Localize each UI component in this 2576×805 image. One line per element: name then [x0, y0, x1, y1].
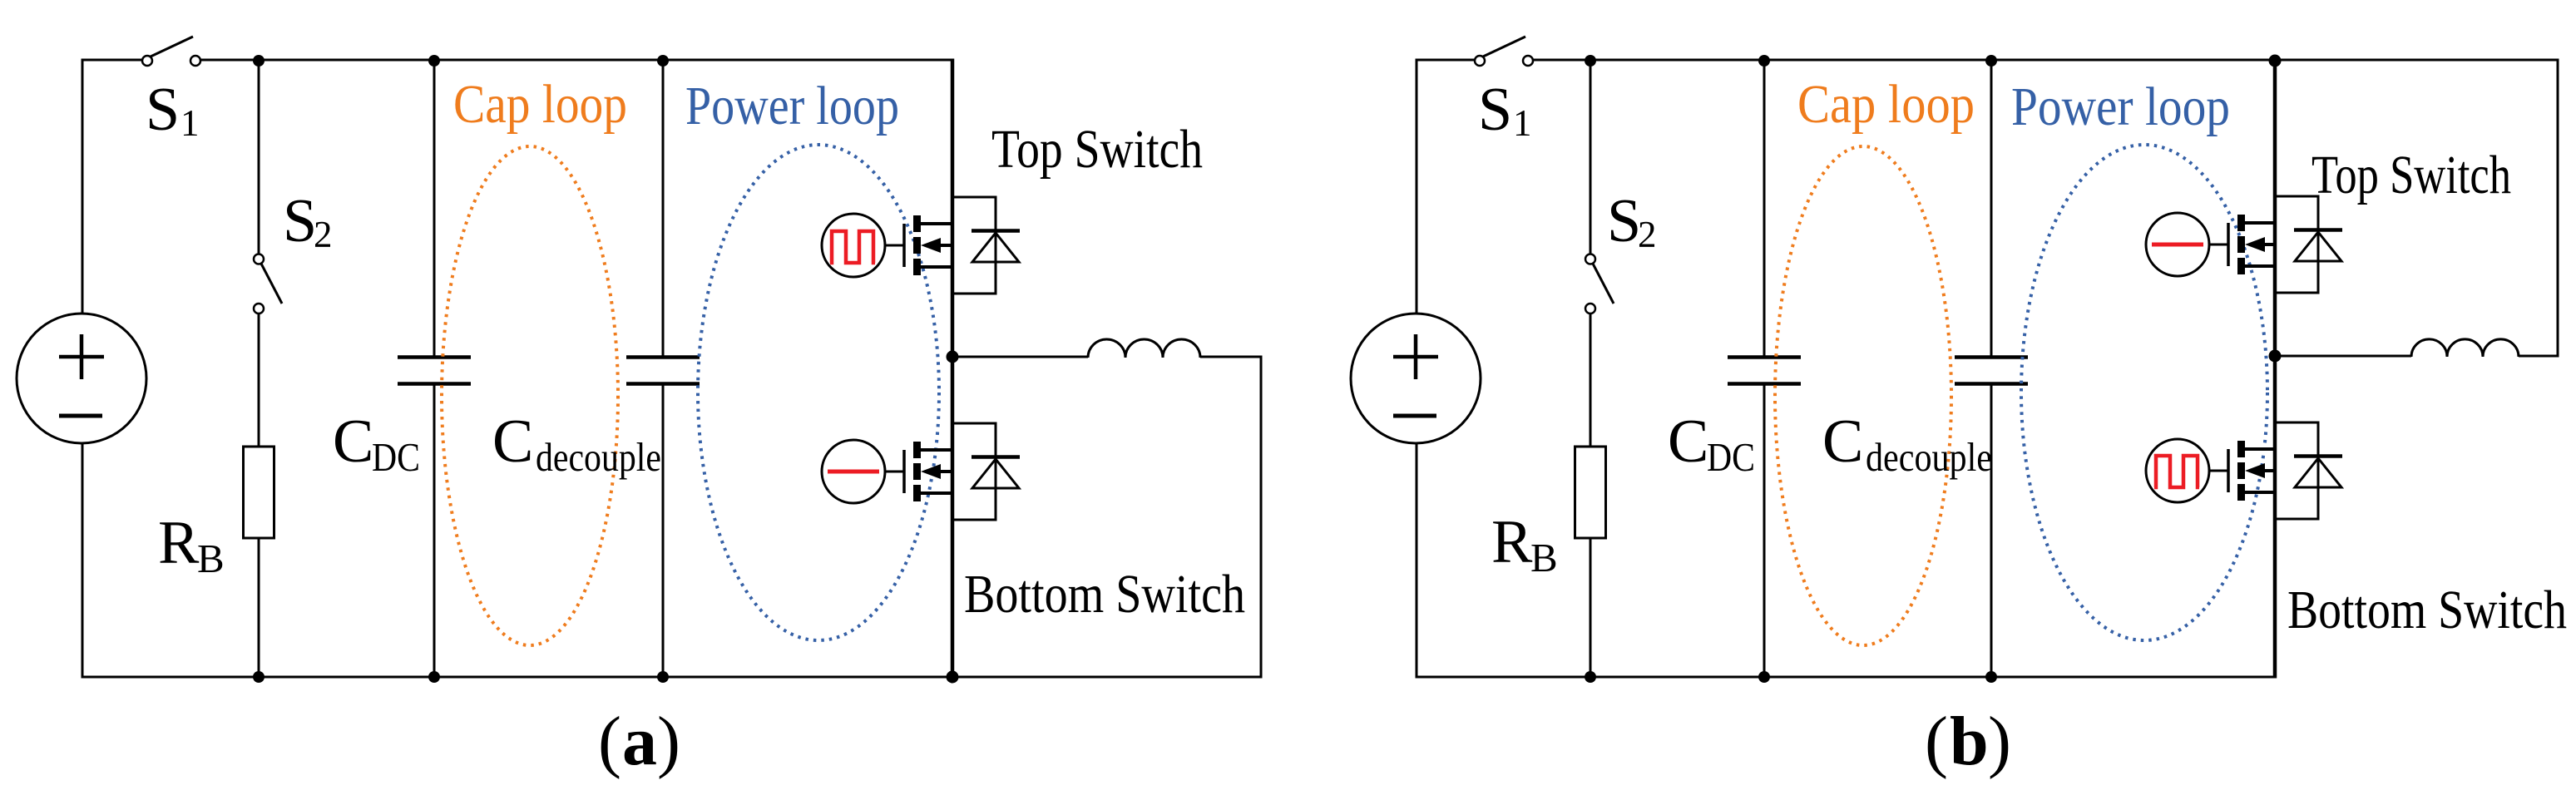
svg-text:S: S — [1607, 187, 1641, 255]
label S1 (b) — [1478, 76, 1532, 144]
wire half-bridge vertical (b) — [2273, 59, 2277, 679]
capacitor CDC (a) — [398, 358, 471, 384]
label (a) — [598, 703, 680, 780]
svg-text:C: C — [492, 407, 533, 476]
resistor RB (a) — [244, 447, 274, 538]
wire left rail upper (a) — [82, 59, 84, 315]
switch S1 (b) — [1475, 37, 1533, 66]
MOSFET bottom switch b — [2228, 441, 2275, 501]
capacitor CDC (b) — [1728, 358, 1801, 384]
wire left rail lower (b) — [1416, 442, 1418, 679]
svg-text:a: a — [622, 703, 657, 780]
wire Cdecouple branch upper (b) — [1990, 60, 1993, 356]
svg-text:b: b — [1950, 703, 1989, 780]
svg-text:decouple: decouple — [1866, 434, 1992, 480]
svg-text:S: S — [146, 76, 180, 144]
body diode (top switch b) — [2294, 230, 2342, 262]
svg-text:(: ( — [1925, 703, 1948, 780]
body diode branch wire (top switch b) — [2275, 196, 2318, 293]
label Cdecouple (a) — [492, 407, 661, 480]
wire S2 branch upper (a) — [258, 60, 260, 254]
svg-text:decouple: decouple — [536, 434, 661, 480]
label RB (a) — [158, 509, 225, 581]
PWM square-wave symbol (top switch a) — [830, 231, 875, 263]
svg-text:S: S — [283, 187, 317, 255]
body diode (top switch a) — [972, 231, 1020, 263]
svg-text:B: B — [197, 536, 225, 581]
PWM square-wave symbol (bottom switch b) — [2154, 456, 2199, 487]
wire half-bridge vertical (a) — [951, 59, 955, 679]
wire S2 to resistor (a) — [258, 314, 260, 447]
svg-text:Top Switch: Top Switch — [991, 119, 1203, 180]
body diode (bottom switch b) — [2294, 457, 2342, 488]
svg-text:Power loop: Power loop — [2011, 77, 2230, 137]
svg-text:Bottom Switch: Bottom Switch — [964, 564, 1245, 625]
Power loop ellipse (blue dotted) (a) — [698, 145, 939, 640]
wire bottom rail (b) — [1417, 676, 2275, 679]
wire top rail (b) — [1417, 59, 1475, 62]
wire left rail lower (a) — [82, 442, 84, 679]
MOSFET top switch a — [904, 215, 952, 275]
label CDC (b) — [1668, 407, 1755, 480]
switch S2 (b) — [1585, 254, 1614, 314]
wire inductor to corner (a) — [1200, 356, 1261, 358]
svg-text:B: B — [1530, 535, 1558, 580]
svg-text:C: C — [333, 407, 373, 476]
svg-text:Cap loop: Cap loop — [453, 74, 627, 135]
body diode branch wire (bottom switch a) — [952, 423, 996, 520]
label Top Switch (b) — [2311, 145, 2511, 205]
label RB (b) — [1491, 508, 1558, 580]
wire left rail upper (b) — [1416, 59, 1418, 315]
wire phase node to inductor (a) — [952, 356, 1088, 358]
wire Cdecouple branch upper (a) — [662, 60, 665, 356]
wire load right vertical (a) — [1260, 356, 1263, 679]
wire resistor to bottom rail (b) — [1590, 538, 1592, 677]
svg-text:1: 1 — [180, 102, 200, 144]
Power loop ellipse (blue dotted) (b) — [2021, 145, 2267, 640]
wire S2 branch upper (b) — [1590, 60, 1592, 254]
wire inductor to corner (b) — [2519, 355, 2558, 358]
label CDC (a) — [333, 407, 420, 480]
gate drive source circle (top switch b) — [2146, 213, 2209, 276]
wire CDC branch upper (a) — [433, 60, 436, 356]
wire top rail after S1 (b) — [1533, 59, 2558, 62]
svg-text:R: R — [158, 509, 200, 577]
svg-text:Cap loop: Cap loop — [1797, 74, 1975, 135]
wire gate lead (bottom switch b) — [2209, 470, 2228, 472]
MOSFET top switch b — [2228, 215, 2275, 274]
label Power loop (a) — [685, 76, 899, 136]
label S2 (b) — [1607, 187, 1657, 255]
wire bottom rail (a) — [82, 676, 1261, 679]
wire gate lead (top switch b) — [2209, 244, 2228, 246]
wire phase node to inductor (b) — [2275, 355, 2411, 358]
svg-text:Top Switch: Top Switch — [2311, 145, 2511, 205]
body diode branch wire (top switch a) — [952, 197, 996, 294]
resistor RB (b) — [1575, 447, 1606, 538]
Cap loop ellipse (orange dotted) (b) — [1775, 146, 1951, 645]
inductor L (a) — [1088, 339, 1200, 358]
svg-text:Bottom Switch: Bottom Switch — [2287, 580, 2567, 640]
body diode branch wire (bottom switch b) — [2275, 422, 2318, 519]
label Power loop (b) — [2011, 77, 2230, 137]
inductor L (b) — [2411, 339, 2519, 357]
svg-text:): ) — [657, 703, 680, 780]
wire gate lead (bottom switch a) — [885, 471, 904, 473]
gate drive source circle (bottom switch a) — [822, 440, 885, 503]
DC voltage source V (a) — [17, 314, 146, 443]
MOSFET bottom switch a — [904, 442, 952, 501]
wire Cdecouple branch lower (b) — [1990, 385, 1993, 677]
wire S2 to resistor (b) — [1590, 314, 1592, 447]
wire gate lead (top switch a) — [885, 244, 904, 247]
wire CDC branch upper (b) — [1763, 60, 1766, 356]
wire CDC branch lower (a) — [433, 385, 436, 677]
svg-text:R: R — [1491, 508, 1533, 576]
junction dots (a) — [253, 55, 959, 684]
label Bottom Switch (b) — [2287, 580, 2567, 640]
svg-text:2: 2 — [314, 214, 333, 255]
label (b) — [1925, 703, 2011, 780]
junction dots (b) — [1585, 55, 2282, 684]
Cap loop ellipse (orange dotted) (a) — [442, 146, 618, 645]
wire top rail after S1 (a) — [200, 59, 952, 62]
svg-text:DC: DC — [1707, 434, 1755, 480]
DC voltage source V (b) — [1351, 314, 1481, 443]
body diode (bottom switch a) — [972, 457, 1020, 489]
gate drive source circle (top switch a) — [822, 214, 885, 277]
switch S2 (a) — [254, 254, 282, 314]
svg-text:(: ( — [598, 703, 621, 780]
capacitor Cdecouple (a) — [626, 358, 700, 384]
switch S1 (a) — [142, 37, 200, 66]
gate drive source circle (bottom switch b) — [2146, 439, 2209, 502]
svg-text:2: 2 — [1638, 214, 1657, 255]
wire CDC branch lower (b) — [1763, 385, 1766, 677]
svg-text:C: C — [1668, 407, 1708, 476]
label S2 (a) — [283, 187, 333, 255]
DC off-level symbol (top switch b) — [2152, 243, 2203, 247]
svg-text:S: S — [1478, 76, 1512, 144]
wire load right vertical (b) — [2557, 59, 2559, 358]
label Bottom Switch (a) — [964, 564, 1245, 625]
label Cap loop (b) — [1797, 74, 1975, 135]
label Cdecouple (b) — [1822, 407, 1992, 480]
capacitor Cdecouple (b) — [1955, 358, 2028, 384]
label S1 (a) — [146, 76, 200, 144]
DC off-level symbol (bottom switch a) — [828, 470, 879, 474]
svg-text:Power loop: Power loop — [685, 76, 899, 136]
svg-text:): ) — [1988, 703, 2011, 780]
svg-text:C: C — [1822, 407, 1863, 476]
svg-text:DC: DC — [372, 434, 420, 480]
label Cap loop (a) — [453, 74, 627, 135]
wire Cdecouple branch lower (a) — [662, 385, 665, 677]
svg-text:1: 1 — [1513, 102, 1532, 144]
wire top rail (a) — [82, 59, 142, 62]
label Top Switch (a) — [991, 119, 1203, 180]
wire resistor to bottom rail (a) — [258, 538, 260, 677]
